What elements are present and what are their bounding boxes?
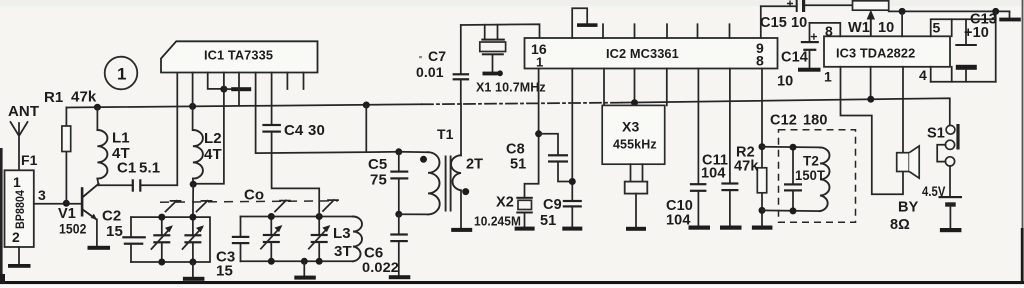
ground at tank2 [294,261,316,279]
svg-text:L3: L3 [333,225,351,242]
ground bar at IC1 pins [224,87,251,91]
svg-text:C8: C8 [506,142,525,158]
capacitor C10 104 [666,69,710,230]
node C5 bottom [395,211,402,218]
svg-text:C2: C2 [102,208,121,225]
svg-text:X3: X3 [622,119,639,135]
speaker BY 8ohm [890,146,919,233]
svg-text:104: 104 [666,213,691,229]
crystal X2 10.245M [474,195,535,231]
svg-text:2T: 2T [466,157,483,173]
T1 secondary top wire to bus [460,104,462,155]
variable capacitor Cd (tank2 right gang section) [309,217,331,262]
svg-text:T2: T2 [803,154,819,169]
IC1 pin 3 hook [208,73,224,89]
svg-text:2: 2 [12,229,20,245]
IC1 pins 3/4 ground node [220,86,227,93]
svg-text:S1: S1 [927,126,945,142]
right edge line [1022,0,1024,283]
svg-text:Co: Co [244,187,264,204]
svg-text:ANT: ANT [8,103,39,120]
left edge dark strip [0,148,3,284]
filter F1 BP8804 box [5,152,38,247]
IC3 bottom supply pin to bus [870,67,872,100]
svg-text:C5: C5 [368,156,387,173]
node L2 bottom [190,181,197,188]
top supply rail right [889,10,1010,12]
IC1 pin 8 stub [286,73,288,90]
op-amp/IC U1 IC1 TA7335 box [161,41,318,72]
svg-text:C9: C9 [543,197,562,213]
IC3 pin 8 lead [810,23,841,39]
svg-text:IC2 MC3361: IC2 MC3361 [606,46,679,61]
tank1 junction dots [158,214,165,221]
capacitor C12 (inside shield) [770,113,828,211]
main bus wire (left solid) [66,104,422,107]
svg-text:C12: C12 [770,113,797,129]
svg-text:BY: BY [898,200,919,216]
node base junction [63,200,70,207]
svg-text:3: 3 [38,187,46,203]
node bus-IC2 pin4 [631,99,638,106]
T1 secondary bottom to ground [451,190,472,232]
svg-text:L1: L1 [112,130,130,147]
svg-text:75: 75 [370,172,387,189]
svg-text:8: 8 [756,53,764,69]
svg-text:15: 15 [106,223,123,240]
svg-text:W1: W1 [848,20,870,36]
svg-text:1502: 1502 [59,221,87,237]
IC2 pin9 wire up to C15 [760,6,762,38]
capacitor C6 0.022 [362,214,410,279]
IC2 grounded top pin [572,8,597,38]
svg-text:10: 10 [878,20,894,36]
potentiometer W1 10 [848,1,894,36]
T2 tank rails [762,147,820,211]
svg-text:X1 10.7MHz: X1 10.7MHz [476,81,546,95]
capacitor C5 75 [368,152,408,214]
wire L2 bottom to tank1 [192,184,194,217]
shield dashed box around T2 [779,130,856,223]
pin 3 wire F1 to base [34,187,81,204]
wire C7 top to IC2 pin16 [461,24,540,38]
svg-text:51: 51 [540,213,556,229]
svg-text:X2: X2 [496,195,514,211]
svg-text:30: 30 [308,122,325,139]
svg-text:1: 1 [13,174,21,190]
inductor L1 [97,107,129,185]
svg-text:47k: 47k [734,159,759,175]
transformer T1 core [446,156,451,212]
oscillator tank 1 rails [131,217,210,262]
capacitor C11 104 [701,69,742,230]
transformer T1 secondary 2T [451,155,483,195]
inductor L3 [333,217,362,262]
transistor V1 1502 [58,184,99,246]
gang arrow mark 3 [275,200,290,211]
capacitor C2 [102,208,146,263]
svg-text:C1: C1 [117,160,136,177]
IC1 pin 4 wire to L2 bottom [193,73,224,184]
svg-text:4.5V: 4.5V [922,184,946,199]
svg-text:15: 15 [216,263,233,280]
IC3 TDA2822 box [824,36,950,67]
IC3 pin 7 wiper (drawn above) / pin2 supply [901,11,903,36]
ground under F1 [8,247,31,268]
svg-text:IC1 TA7335: IC1 TA7335 [204,48,273,63]
svg-text:T1: T1 [437,126,454,142]
variable capacitor Ca (tank1 left gang section) [151,217,173,262]
ground at tank1 [183,262,205,281]
svg-text:10: 10 [791,15,807,31]
svg-text:C4: C4 [284,122,304,139]
capacitor C9 51 [540,197,582,231]
node C8/C9 [569,178,576,185]
IC3 pin 5 box lead [931,19,996,36]
main bus wire (right solid to S1) [622,98,950,125]
crystal X1 10.7MHz [476,25,546,95]
svg-text:C14: C14 [781,50,808,66]
svg-text:3T: 3T [334,243,352,260]
svg-text:10: 10 [777,74,793,90]
IC2 top pin stubs [603,24,730,38]
bottom border line [0,281,1024,284]
svg-text:BP8804: BP8804 [13,190,27,229]
battery 4.5V [922,166,962,232]
IC1 pin 2 to bus [192,73,194,107]
gang dashed line Co [160,187,338,204]
svg-text:104: 104 [701,166,726,182]
switch S1 [927,124,960,166]
svg-text:4: 4 [919,67,927,83]
electrolytic C15 10 [760,0,853,31]
svg-text:8Ω: 8Ω [890,217,910,233]
ground top right [999,11,1021,21]
gang arrow mark 2 [197,201,212,212]
IC2 pin1 wire down [525,69,539,198]
svg-text:1: 1 [117,65,127,84]
C13 right vertical [995,11,997,81]
node rail-C13 [992,8,999,15]
IF tap vertical from bus [365,105,367,152]
svg-text:L2: L2 [204,130,222,147]
tank2 junction dots [268,213,275,220]
svg-text:C7: C7 [428,48,446,64]
svg-text:10.245M: 10.245M [474,214,521,229]
antenna ANT [8,103,39,170]
inductor L2 [193,106,222,183]
svg-text:+10: +10 [964,25,989,41]
variable capacitor Cc (tank2 left gang section) [261,217,283,262]
svg-text:0.022: 0.022 [362,259,399,275]
node IC3-bus [867,96,874,103]
svg-text:F1: F1 [21,152,38,168]
svg-text:0.01: 0.01 [416,64,444,80]
main bus wire (middle dash-dot) [422,103,622,105]
resistor R2 47k [734,69,772,230]
C3 15 label [216,249,235,280]
inductor T2 150T [795,147,830,211]
variable capacitor Cb (tank1 right gang section) [183,217,205,262]
svg-text:1: 1 [824,69,832,85]
gang arrow mark 1 [166,201,181,212]
IC2 pin2 wire down [571,69,573,201]
IC1 pin 6 IF output wire [256,73,399,154]
speck mark [419,56,422,58]
IC1 pin 5 stub [238,73,240,106]
svg-text:180: 180 [803,113,828,129]
IC2 pin5 to X3 [666,69,668,106]
IC2 pin4 to bus [634,69,636,105]
IC3 pin 1 wire to speaker [824,67,903,195]
capacitor C1 5.1 [99,73,178,192]
node R2 top [759,143,766,150]
node C12 top [790,144,797,151]
svg-text:47k: 47k [71,89,97,106]
svg-text:C15: C15 [760,15,787,31]
IC2 MC3361 box [525,38,778,70]
svg-text:455kHz: 455kHz [613,138,657,152]
svg-text:4T: 4T [204,146,222,163]
IC3 pin 3 wire to speaker top [902,67,904,153]
svg-text:IC3 TDA2822: IC3 TDA2822 [836,46,915,61]
svg-text:51: 51 [510,157,526,173]
capacitor C7 0.01 [416,25,469,104]
capacitor C4 30 [262,73,324,217]
svg-text:8: 8 [825,23,833,39]
resistor R1 [44,89,97,204]
svg-text:5.1: 5.1 [139,160,160,177]
IC2 pin3 to X3 [603,69,605,106]
capacitor C3 (tank2 left) [232,217,250,262]
node C12 bottom [790,207,797,214]
ceramic filter X3 455kHz box [602,105,665,230]
node pin1/C8 [535,130,542,137]
svg-text:1: 1 [536,55,543,70]
ground at V1 emitter [88,246,111,250]
node rail-IC3 [899,8,906,15]
electrolytic C14 10 [777,23,821,90]
transformer T1 primary [399,126,454,214]
gang arrow mark 4 [323,200,338,211]
svg-text:R1: R1 [44,89,63,106]
svg-text:150T: 150T [795,168,826,183]
electrolytic C13 +10 [955,12,997,82]
IC1 pin 9 stub [303,73,305,90]
svg-text:5: 5 [933,20,941,36]
capacitor C8 51 [506,134,572,182]
node C5 top [395,148,402,155]
oscillator tank 2 rails [241,217,354,262]
circled 1 mark [105,57,138,90]
node bus-IF tap [363,102,370,109]
IC3 pin 4 box lead [919,67,996,83]
node bus-L1 [94,104,101,111]
node R2 bottom [759,207,766,214]
node bus-L2 [189,103,196,110]
